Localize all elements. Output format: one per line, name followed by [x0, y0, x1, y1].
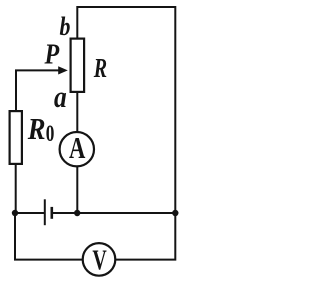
svg-text:V: V — [92, 245, 107, 276]
svg-text:A: A — [69, 130, 86, 164]
svg-text:R: R — [27, 112, 46, 146]
svg-text:R: R — [93, 54, 107, 84]
svg-text:P: P — [44, 37, 60, 70]
svg-text:0: 0 — [46, 122, 55, 147]
svg-text:b: b — [60, 13, 71, 41]
svg-text:a: a — [54, 81, 67, 115]
